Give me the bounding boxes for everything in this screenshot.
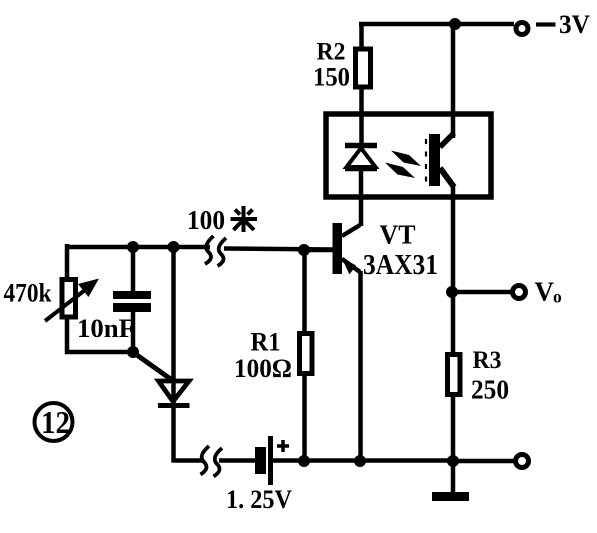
svg-text:100Ω: 100Ω: [234, 354, 292, 383]
svg-text:R3: R3: [473, 347, 502, 374]
wire left top (base line): [65, 244, 333, 279]
wire bottom rail: [172, 404, 453, 463]
terminal -3V: [516, 23, 528, 35]
junction cap top: [127, 241, 139, 253]
wire to bottom terminal: [453, 459, 515, 464]
figure number 12: [35, 403, 73, 441]
symbol mi (meters): [231, 206, 258, 232]
resistor R3: [448, 292, 461, 461]
junction diode line top: [168, 241, 180, 253]
svg-text:R1: R1: [251, 328, 281, 357]
terminal bottom right: [516, 455, 529, 468]
svg-text:10nF: 10nF: [77, 314, 135, 343]
wire to Vo terminal: [453, 290, 512, 295]
svg-text:o: o: [553, 287, 562, 307]
label VT 3AX31: [363, 220, 438, 282]
svg-text:V: V: [535, 277, 555, 307]
label R1 100ohm: [234, 328, 292, 384]
junction Vo: [446, 286, 458, 298]
wire VT emitter down: [358, 271, 363, 461]
optocoupler box: [326, 114, 491, 197]
wire collector to top rail: [451, 24, 456, 138]
wire top rail: [359, 22, 514, 27]
svg-text:470k: 470k: [4, 279, 52, 308]
junction bottom right: [447, 455, 459, 467]
wire emitter down to Vo node: [451, 185, 456, 292]
label Vo: [535, 277, 563, 307]
junction base node: [298, 244, 310, 256]
terminal Vo: [513, 286, 526, 299]
label R2 150: [313, 39, 350, 92]
junction VT emitter bottom: [354, 455, 366, 467]
svg-text:3V: 3V: [559, 10, 590, 39]
svg-text:3AX31: 3AX31: [363, 250, 438, 281]
svg-text:12: 12: [41, 404, 70, 440]
svg-text:250: 250: [471, 375, 509, 405]
resistor R2: [356, 24, 371, 146]
resistor RP 470k (variable): [45, 279, 99, 355]
wire RC bottom: [65, 350, 136, 355]
wire diagonal to diode: [134, 353, 172, 380]
svg-text:100: 100: [187, 205, 225, 235]
capacitor C 10nF: [113, 247, 151, 354]
resistor R1: [300, 250, 313, 461]
break marks top (100 m line): [205, 236, 226, 266]
junction R1 bottom: [298, 455, 310, 467]
phototransistor in optocoupler: [426, 133, 454, 187]
label -3V: [536, 10, 590, 39]
LED in optocoupler: [345, 146, 377, 227]
battery B 1.25V: [255, 436, 289, 485]
label 100 m: [187, 205, 225, 235]
svg-text:150: 150: [313, 63, 350, 92]
transistor VT: [307, 223, 360, 275]
label R3 250: [471, 347, 509, 405]
svg-text:1. 25V: 1. 25V: [226, 485, 292, 514]
break marks bottom (long line): [201, 446, 223, 477]
light arrows: [385, 151, 421, 179]
junction RC bottom: [127, 346, 139, 358]
svg-text:R2: R2: [317, 39, 346, 66]
svg-text:VT: VT: [380, 220, 416, 250]
wire top node to diode: [171, 247, 176, 404]
ground: [432, 461, 469, 501]
diode D: [158, 381, 190, 406]
junction top rail: [449, 18, 461, 30]
